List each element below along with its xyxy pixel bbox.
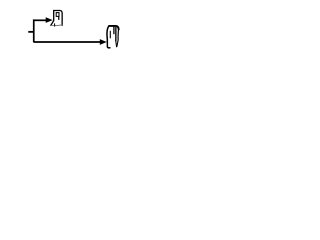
background: [0, 0, 150, 62]
arrowhead top: [46, 17, 53, 23]
wire bottom branch: [34, 41, 101, 43]
icon document 1 (small tilted page): [51, 11, 62, 27]
node tick (input stub): [28, 31, 33, 33]
seal glyph on document 1: [56, 13, 59, 20]
seal glyph on document 2: [110, 27, 114, 39]
arrowhead bottom: [100, 39, 107, 45]
icon document 2 (large page with ribbon): [107, 26, 119, 48]
wire top branch: [34, 19, 47, 21]
wire vertical bus: [33, 19, 35, 42]
